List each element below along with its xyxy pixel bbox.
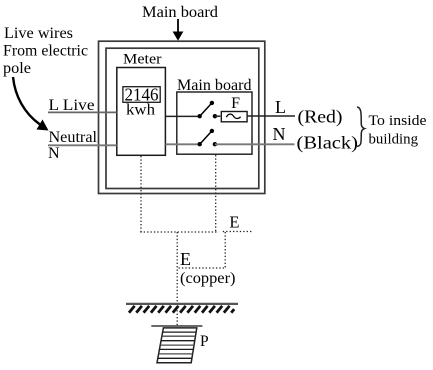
label: kwh: [126, 102, 155, 119]
curved arrow from 'pole' to Neutral wire: [13, 77, 49, 131]
label: Main board (top annotation): [142, 4, 218, 21]
wire: live meter to switch S1: [165, 115, 199, 117]
label: Neutral: [49, 129, 98, 146]
switch S2 (neutral): [198, 129, 218, 147]
earth branch: dotted horizontal under E: [223, 231, 252, 233]
label: (Black): [297, 132, 359, 153]
svg-text:To inside: To inside: [369, 113, 427, 129]
earth wire: dotted main vertical to ground: [176, 232, 178, 326]
fuse F (box with wave): [221, 112, 247, 122]
svg-text:N: N: [48, 145, 60, 162]
svg-text:L: L: [275, 97, 286, 117]
label: To inside building: [369, 113, 427, 147]
earth plate P: [157, 328, 197, 363]
earth wire: dotted horizontal bus: [140, 231, 218, 233]
svg-text:Neutral: Neutral: [49, 129, 98, 146]
wire: live incoming to meter: [48, 111, 117, 113]
label: (Red): [298, 107, 343, 128]
label: L Live: [49, 97, 95, 114]
wire: live out of fuse to L terminal: [247, 115, 295, 117]
svg-text:Meter: Meter: [123, 52, 162, 68]
brace to inside building: [357, 107, 365, 146]
svg-text:F: F: [231, 95, 240, 112]
svg-text:(Red): (Red): [298, 107, 343, 128]
svg-text:building: building: [369, 131, 419, 147]
label: (copper): [180, 270, 236, 287]
svg-text:(copper): (copper): [180, 270, 236, 287]
ground hatching: [129, 306, 234, 313]
label: Main board (distribution box): [177, 77, 252, 94]
label: F (fuse): [231, 95, 240, 112]
earth branch: dotted vertical: [224, 232, 226, 268]
wire: neutral incoming to meter: [48, 144, 117, 146]
svg-text:kwh: kwh: [126, 102, 155, 119]
label: N (incoming neutral): [48, 145, 60, 162]
svg-text:Main board: Main board: [142, 4, 218, 21]
meter box: [117, 68, 166, 156]
ground surface line: [126, 303, 238, 305]
arrow from top label to outer box: [173, 19, 184, 41]
wire: neutral out to N terminal: [215, 143, 295, 145]
earth plate cap line: [151, 325, 202, 327]
label: Meter: [123, 52, 162, 68]
meter display box with value 2146: [123, 85, 160, 105]
main board box: [177, 92, 252, 154]
wire: S1 to fuse: [215, 115, 220, 117]
svg-text:Live wires: Live wires: [4, 25, 73, 42]
inner enclosure box: [106, 48, 259, 188]
earth wire: dotted from meter down: [140, 156, 142, 232]
svg-text:(Black): (Black): [297, 132, 359, 153]
earth wire: dotted from main board down: [215, 155, 217, 232]
label: P (plate): [200, 333, 209, 350]
earth branch: dotted horizontal lower: [179, 267, 226, 269]
svg-text:E: E: [229, 213, 239, 232]
outer enclosure box: [99, 41, 265, 193]
svg-text:From electric: From electric: [3, 43, 88, 60]
svg-text:L Live: L Live: [49, 97, 95, 114]
svg-text:pole: pole: [3, 60, 31, 77]
wire: neutral meter to switch S2: [165, 143, 199, 145]
label: E (earth electrode): [180, 249, 191, 269]
label: L output terminal: [275, 97, 286, 117]
label: Live wires From electric pole: [3, 25, 88, 77]
switch S1 (live): [198, 101, 218, 119]
svg-text:E: E: [180, 249, 191, 269]
svg-text:P: P: [200, 333, 209, 350]
label: E (earth branch): [229, 213, 239, 232]
svg-text:N: N: [273, 124, 286, 144]
label: N output terminal: [273, 124, 286, 144]
